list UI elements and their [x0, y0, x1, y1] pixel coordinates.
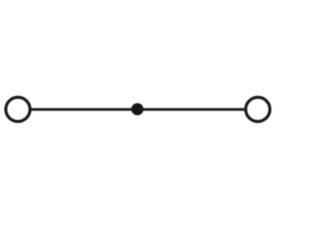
terminal circle left — [6, 97, 30, 121]
wire — [30, 108, 246, 111]
terminal circle right — [246, 97, 270, 121]
node junction dot — [131, 103, 143, 115]
